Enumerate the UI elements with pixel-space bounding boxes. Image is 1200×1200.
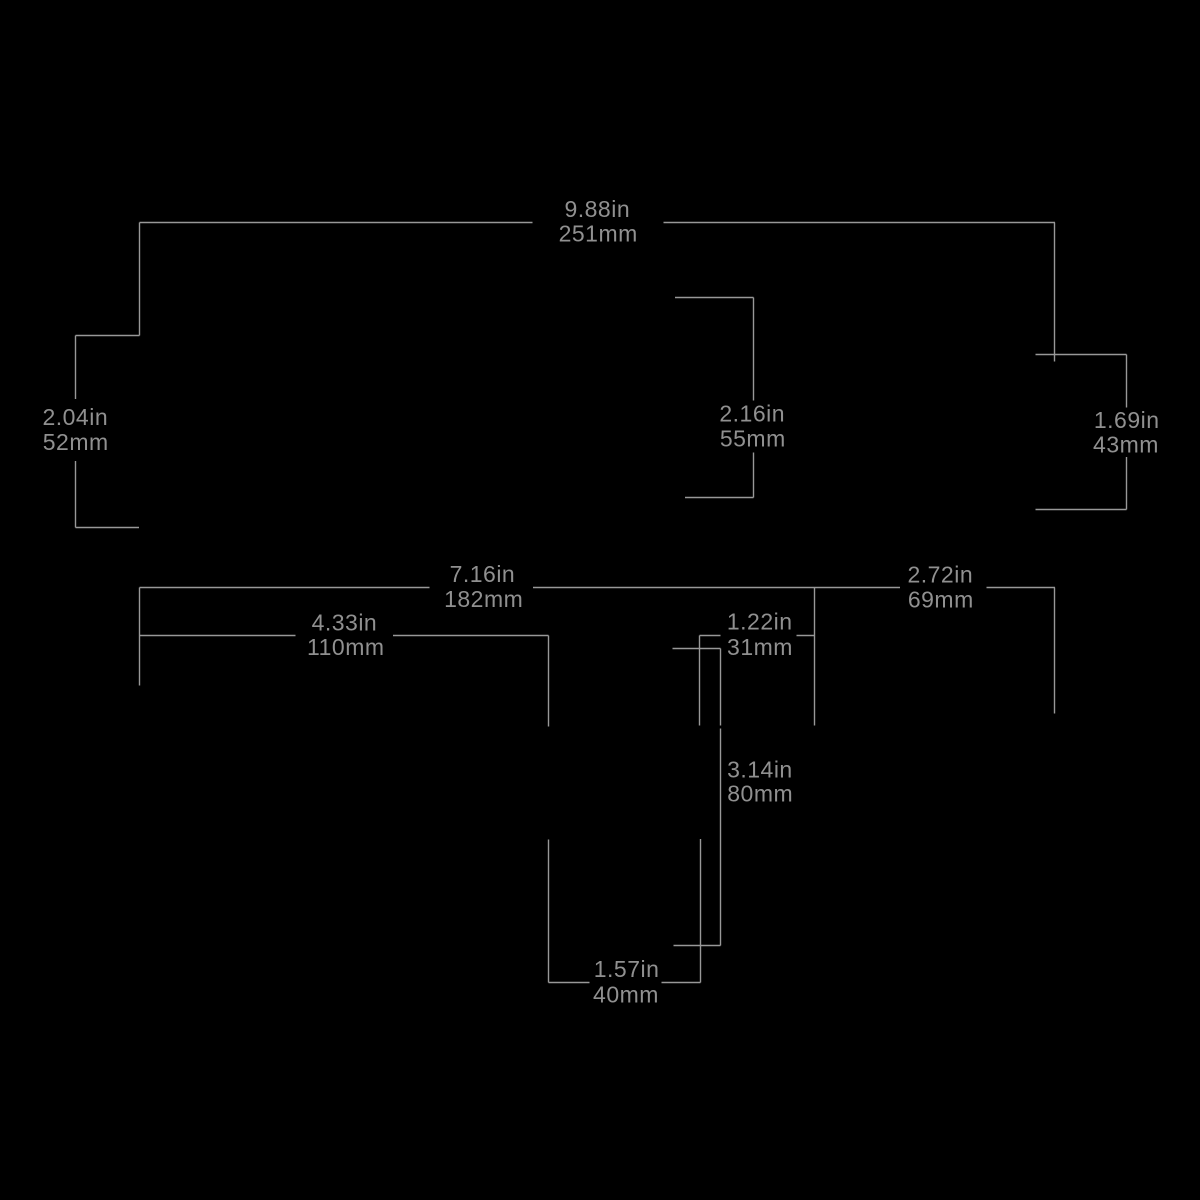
svg-text:251mm: 251mm xyxy=(559,221,638,247)
svg-text:40mm: 40mm xyxy=(593,981,659,1007)
svg-text:31mm: 31mm xyxy=(727,634,793,660)
svg-text:1.22in: 1.22in xyxy=(727,609,793,635)
svg-text:2.72in: 2.72in xyxy=(907,561,973,587)
svg-text:69mm: 69mm xyxy=(908,586,974,612)
svg-text:55mm: 55mm xyxy=(720,425,786,451)
svg-text:80mm: 80mm xyxy=(727,781,793,807)
svg-text:2.04in: 2.04in xyxy=(42,404,108,430)
svg-text:7.16in: 7.16in xyxy=(450,561,516,587)
svg-text:2.16in: 2.16in xyxy=(719,401,785,427)
svg-text:110mm: 110mm xyxy=(307,634,385,660)
svg-text:182mm: 182mm xyxy=(444,586,523,612)
svg-text:4.33in: 4.33in xyxy=(312,609,378,635)
svg-text:43mm: 43mm xyxy=(1093,432,1159,458)
svg-text:1.69in: 1.69in xyxy=(1094,407,1160,433)
svg-text:52mm: 52mm xyxy=(43,429,109,455)
svg-text:3.14in: 3.14in xyxy=(727,756,793,782)
svg-text:9.88in: 9.88in xyxy=(564,196,630,222)
svg-text:1.57in: 1.57in xyxy=(594,956,660,982)
